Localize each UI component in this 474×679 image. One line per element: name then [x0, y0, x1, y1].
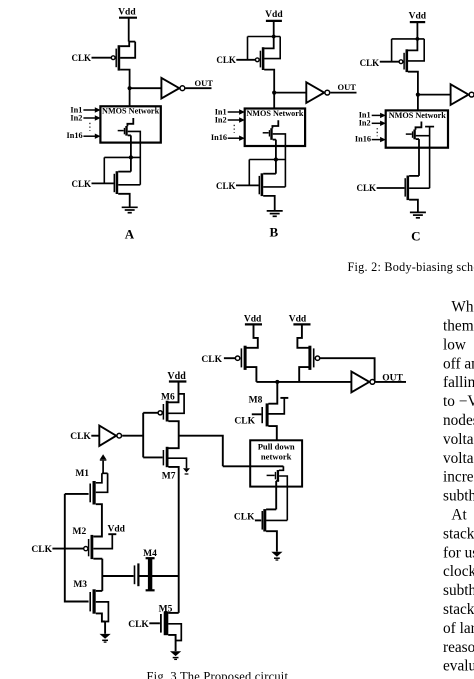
- svg-text:M8: M8: [249, 396, 263, 406]
- svg-text:CLK: CLK: [234, 417, 255, 427]
- wire: right loop to body tap (C): [408, 39, 424, 61]
- wire: Vdd stem + source tap PMOS B: [264, 21, 274, 49]
- svg-text:of large: of large: [443, 620, 474, 637]
- svg-text:M7: M7: [162, 471, 176, 481]
- svg-text:Pull down: Pull down: [258, 442, 295, 452]
- NMOS Network box (A): [100, 106, 160, 142]
- svg-text:M2: M2: [73, 527, 87, 537]
- power Vdd (circuit B): [265, 10, 283, 21]
- wire: node down to NMOS network box (A): [129, 88, 131, 106]
- wire: Vdd stem + source tap PMOS C: [408, 22, 418, 50]
- input In1 (C): [359, 111, 386, 120]
- wire: right loop to body tap (B): [264, 37, 280, 59]
- wire: Vdd stem to PMOS A: [129, 18, 136, 42]
- input In1 (B): [215, 107, 245, 116]
- wire: M8 source to pull-down box: [268, 426, 276, 440]
- label M7: [162, 471, 176, 481]
- svg-text:Vdd: Vdd: [265, 10, 283, 20]
- label CLK (inverter input fig3): [70, 432, 99, 442]
- power Vdd (fig3 keeper): [289, 314, 311, 324]
- M2 body tap to Vdd T-bar: [93, 525, 125, 549]
- NMOS Network box (B): [245, 109, 305, 147]
- wire: mid node to pull-down box: [179, 436, 223, 467]
- svg-text:NMOS Network: NMOS Network: [389, 111, 447, 120]
- svg-text:Vdd: Vdd: [107, 525, 125, 535]
- wire: pull-down inner source down through box: [276, 481, 279, 510]
- ellipsis dots between In2/In16 (A): [89, 123, 91, 131]
- svg-text:When the: When the: [451, 299, 474, 316]
- node: Vdd/gate/body tie junction (C): [392, 37, 425, 41]
- wire: M2 drain down / node to M4 gate: [93, 559, 102, 591]
- power Vdd (fig3 left precharge): [244, 314, 262, 324]
- svg-text:In2: In2: [215, 115, 227, 124]
- label M5: [159, 604, 173, 614]
- label M6: [161, 392, 175, 402]
- transistor P2: channel/gate/bubble: [310, 346, 320, 370]
- wire: M7 source long vertical down to M5: [168, 467, 178, 613]
- label M2: [73, 527, 87, 537]
- footer NMOS (A) drain tap: [118, 171, 131, 173]
- M5 body tap + source to ground: [168, 624, 181, 651]
- input In2 (A): [70, 113, 100, 122]
- input In16 (A): [67, 131, 101, 140]
- footer NMOS (B) drain tap: [263, 173, 276, 175]
- svg-text:NMOS Network: NMOS Network: [246, 109, 304, 118]
- transistor PMOS clocked header (C): [399, 49, 407, 72]
- svg-text:OUT: OUT: [382, 374, 403, 384]
- svg-text:falling: falling: [443, 374, 474, 391]
- wire: inner NMOS source down through box (B): [273, 140, 276, 174]
- footer NMOS (B) source tap to ground: [263, 196, 275, 211]
- footer NMOS (A) body tap: [118, 184, 140, 186]
- footer NMOS (fig3 right) drain step: [266, 508, 276, 510]
- svg-text:stacking: stacking: [443, 601, 474, 618]
- footer NMOS (C) source tap to ground: [409, 200, 418, 213]
- wire: body-to-gate left loop (B): [247, 37, 249, 60]
- label CLK (M5) + wire: [128, 620, 160, 630]
- wire: M6 drain / M7 drain vertical: [168, 421, 178, 448]
- wire: inverter out to M6/M7 gates: [122, 413, 162, 458]
- svg-text:A: A: [125, 227, 135, 242]
- svg-text:In2: In2: [70, 113, 82, 122]
- svg-text:In16: In16: [211, 133, 227, 142]
- pull-down network box: [250, 440, 302, 486]
- label CLK (C header) + wire: [360, 58, 399, 68]
- wire + label OUT (B): [330, 82, 356, 93]
- inverter U-C (partially cut): [451, 84, 474, 105]
- node: dynamic node C (junction): [416, 93, 451, 97]
- ground (A): [122, 207, 138, 212]
- svg-text:nodes: nodes: [443, 412, 474, 429]
- svg-text:CLK: CLK: [216, 181, 236, 191]
- input In16 (B): [211, 133, 245, 142]
- transistor M8: channel/gate: [262, 403, 267, 426]
- svg-text:CLK: CLK: [70, 432, 91, 442]
- wire: node down to NMOS network box (C): [417, 95, 419, 111]
- svg-text:In16: In16: [67, 131, 83, 140]
- wire: P2 gate to inverter output: [320, 358, 375, 382]
- footer NMOS (C) body tap: [409, 187, 430, 189]
- wire: CLK vertical + M1 gate: [65, 494, 89, 602]
- svg-text:for use: for use: [443, 544, 474, 561]
- wire: inner NMOS body tap (C): [416, 135, 430, 137]
- wire: node down to NMOS network box (B): [273, 93, 275, 109]
- svg-text:themselves: themselves: [443, 318, 474, 335]
- svg-text:CLK: CLK: [201, 355, 222, 365]
- footer NMOS (B) body tap: [263, 186, 285, 188]
- label CLK (C footer) + wire: [356, 183, 404, 193]
- wire: Vdd stem + M6 source: [168, 382, 178, 403]
- footer NMOS (C) drain tap: [409, 175, 419, 177]
- ellipsis dots between In2/In16 (B): [233, 125, 235, 133]
- wire: P1 drain to out node: [247, 367, 257, 382]
- M3 body tap + source to ground: [96, 602, 109, 634]
- footer (fig3) body tap: [266, 519, 287, 521]
- transistor PMOS clocked header (A) : source tap: [120, 42, 129, 47]
- node: dynamic node A (junction dot): [128, 86, 132, 90]
- transistor inside pull-down box: [267, 466, 284, 481]
- wire: out node line: [256, 380, 351, 384]
- svg-text:OUT: OUT: [338, 82, 357, 92]
- wire: out node down to M8 drain: [268, 382, 277, 404]
- wire: P2 drain to out node: [299, 367, 308, 382]
- ground (B): [267, 211, 283, 216]
- svg-text:clocked: clocked: [443, 563, 474, 580]
- transistor NMOS inside network box (B): [263, 120, 279, 140]
- input In2 (C): [359, 119, 386, 128]
- transistor M7: channel/gate: [163, 447, 167, 467]
- svg-text:At: At: [451, 507, 467, 524]
- label CLK (fig3 right footer) + wire: [234, 513, 261, 523]
- ground (C): [410, 212, 426, 217]
- transistor M5: channel/gate: [161, 612, 166, 636]
- caption Fig. 3 (cut at page bottom): [147, 670, 289, 679]
- label A: [125, 227, 135, 242]
- svg-text:CLK: CLK: [234, 513, 255, 523]
- svg-text:B: B: [269, 225, 278, 240]
- input In1 (A): [70, 105, 100, 114]
- transistor P1: channel/gate/bubble: [235, 346, 245, 370]
- input In2 (B): [215, 115, 245, 124]
- svg-text:CLK: CLK: [128, 620, 149, 630]
- transistor P1 precharge PMOS: source path: [247, 324, 258, 347]
- ground (fig3 right footer): [271, 552, 282, 560]
- svg-text:M1: M1: [75, 469, 89, 479]
- M8 body tap to T-bar terminal: [268, 398, 288, 414]
- transistor P2 keeper PMOS (mirrored): source path: [297, 324, 308, 347]
- svg-text:reasons: reasons: [443, 639, 474, 656]
- transistor PMOS clocked header (B): [255, 47, 263, 70]
- ellipsis dots between In2/In16 (C): [376, 128, 378, 136]
- M7 body tap to small ground: [168, 458, 190, 474]
- transistor PMOS header (A) : body tap tied to Vdd: [120, 42, 135, 58]
- ground (M5): [170, 651, 181, 659]
- svg-text:Vdd: Vdd: [409, 12, 427, 22]
- node: dynamic node B (junction): [272, 91, 306, 95]
- wire: PMOS B drain to node: [264, 70, 274, 93]
- transistor M2: channel/gate/bubble: [84, 535, 92, 559]
- svg-text:Fig. 3 The Proposed circuit: Fig. 3 The Proposed circuit: [147, 670, 289, 679]
- wire: node horizontal to M4: [102, 575, 178, 577]
- svg-text:stacked: stacked: [443, 525, 474, 542]
- svg-text:low: low: [443, 336, 466, 353]
- wire: PMOS A drain to output node: [120, 70, 130, 89]
- wire: inner NMOS body line down to footer body (B): [273, 134, 286, 187]
- transistor NMOS inside network box (C): [406, 122, 422, 140]
- svg-text:CLK: CLK: [71, 53, 91, 63]
- M6 body tap loop to Vdd: [168, 394, 184, 413]
- svg-text:NMOS Network: NMOS Network: [102, 107, 160, 116]
- svg-text:Fig. 2: Body-biasing schemes f: Fig. 2: Body-biasing schemes for dyn: [348, 260, 474, 274]
- transistor NMOS clock footer (fig3 right): [262, 509, 265, 531]
- wire: M1 source to M2 source: [93, 504, 102, 536]
- svg-text:to −Vdd,: to −Vdd,: [443, 393, 474, 410]
- transistor NMOS clock footer (A): [114, 171, 117, 194]
- wire: body/gate tie bar (B) + junction: [249, 157, 285, 185]
- M5 drain step from long vertical: [168, 612, 179, 614]
- wire: body-to-gate left loop (C): [391, 39, 393, 62]
- label CLK (M2) + wire: [31, 545, 83, 555]
- body bias terminal (T bar) inside box (C): [425, 127, 434, 189]
- wire: pull-down inner body line to footer body: [279, 476, 287, 520]
- label M1: [75, 469, 89, 479]
- svg-text:M3: M3: [73, 580, 87, 590]
- M1 top tap + body loop to terminal: [96, 473, 108, 492]
- inverter U-B: [306, 82, 329, 103]
- label CLK (A header) + wire: [71, 53, 111, 63]
- label C: [411, 228, 420, 243]
- svg-text:evaluation: evaluation: [443, 658, 474, 675]
- svg-text:Vdd: Vdd: [118, 7, 136, 17]
- svg-text:off and: off and: [443, 355, 474, 372]
- svg-text:CLK: CLK: [71, 179, 91, 189]
- svg-text:OUT: OUT: [195, 78, 214, 88]
- wire: PMOS C drain to node: [408, 72, 418, 95]
- footer NMOS (A) source tap to ground: [118, 194, 130, 207]
- label CLK (B header) + wire: [216, 55, 255, 65]
- wire: inner NMOS body line down to footer body (A): [128, 131, 141, 184]
- input In16 (C): [355, 135, 386, 144]
- power Vdd (M6): [167, 371, 186, 382]
- power Vdd (circuit A): [118, 7, 137, 17]
- paper body text column (clipped at right edge): [443, 299, 474, 675]
- wire + label OUT (fig3): [376, 374, 407, 384]
- transistor PMOS header (A) : channel + gate + bubble: [111, 45, 119, 70]
- ground (M3): [100, 634, 111, 642]
- inverter U-CLK (fig3): [99, 426, 121, 446]
- svg-text:CLK: CLK: [216, 55, 236, 65]
- wire + label OUT (A): [186, 78, 214, 88]
- svg-text:subthreshold: subthreshold: [443, 488, 474, 505]
- label CLK (B footer) + wire: [216, 181, 259, 191]
- transistor M3: channel/gate: [90, 589, 94, 613]
- transistor M4 (pass, vertical): gate bar/channel/plates: [135, 558, 155, 590]
- label CLK (A footer) + wire: [71, 179, 113, 189]
- label CLK (P1) + wire: [201, 355, 235, 365]
- svg-text:network: network: [261, 452, 292, 462]
- transistor NMOS inside network box (A): [118, 118, 134, 136]
- svg-text:CLK: CLK: [360, 58, 380, 68]
- power Vdd (circuit C): [409, 12, 427, 23]
- wire: body/gate tie bar (A) + junction: [104, 155, 140, 183]
- svg-text:In2: In2: [359, 119, 371, 128]
- label M4: [143, 549, 157, 559]
- label B: [269, 225, 278, 240]
- footer (fig3) source to ground: [266, 531, 277, 551]
- svg-text:voltage: voltage: [443, 431, 474, 448]
- svg-text:Vdd: Vdd: [289, 314, 307, 324]
- svg-text:CLK: CLK: [31, 545, 52, 555]
- label M8: [249, 396, 263, 406]
- svg-text:voltage: voltage: [443, 450, 474, 467]
- wire: from M6/M7 node into pull-down box: [223, 465, 284, 467]
- M3 drain tap: [96, 590, 103, 592]
- node: Vdd/gate/body tie junction (B): [248, 35, 281, 39]
- svg-text:subthreshold: subthreshold: [443, 582, 474, 599]
- caption Fig. 2: [348, 260, 474, 274]
- svg-text:Vdd: Vdd: [244, 314, 262, 324]
- svg-text:C: C: [411, 228, 420, 243]
- transistor NMOS clock footer (B): [259, 173, 262, 196]
- transistor M6: channel/gate/bubble: [158, 401, 167, 422]
- transistor NMOS clock footer (C): [405, 176, 408, 201]
- NMOS Network box (C): [386, 110, 448, 147]
- bias terminal arrow above M1: [100, 454, 107, 473]
- svg-text:CLK: CLK: [356, 183, 376, 193]
- svg-text:increase: increase: [443, 469, 474, 486]
- label CLK (M8) + gate wire: [234, 414, 261, 426]
- svg-text:In16: In16: [355, 135, 371, 144]
- inverter U-OUT (fig3): [351, 372, 374, 393]
- wire: inner NMOS source down through box (C): [416, 139, 419, 176]
- inverter U-A: [161, 78, 184, 99]
- transistor M1: channel/gate: [90, 481, 94, 505]
- label M3: [73, 580, 87, 590]
- wire: inner NMOS source down through box (A): [128, 135, 131, 171]
- wire: node to inverter input (A): [130, 87, 162, 89]
